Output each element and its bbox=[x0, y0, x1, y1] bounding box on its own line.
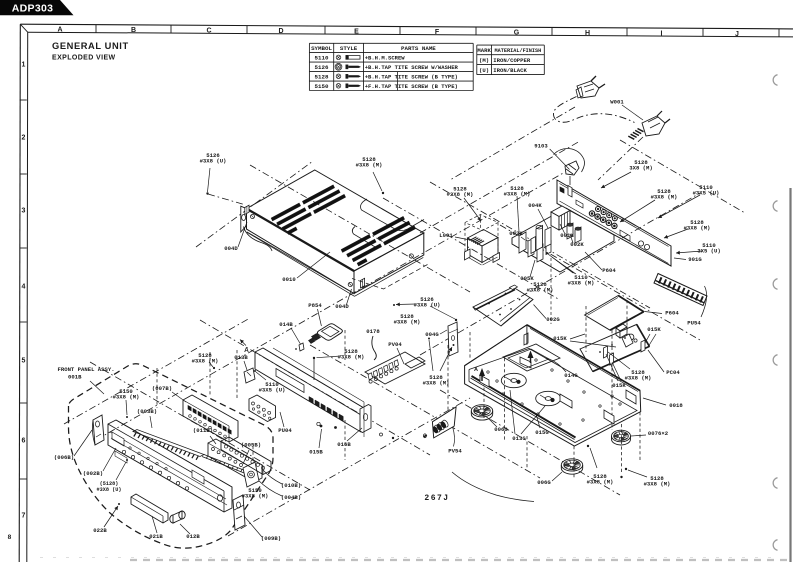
svg-text:#3X8 (M): #3X8 (M) bbox=[242, 493, 269, 500]
dashed guides above L001 bbox=[465, 215, 498, 231]
dashed vertical near 002G bbox=[550, 258, 552, 324]
bold arrow on chassis rear bbox=[528, 351, 534, 359]
svg-text:MATERIAL/FINISH: MATERIAL/FINISH bbox=[495, 48, 542, 54]
svg-text:#3X8 (M): #3X8 (M) bbox=[423, 380, 450, 387]
cable curve from cover flange bbox=[244, 227, 273, 252]
capacitors 002K bbox=[567, 223, 573, 239]
svg-text:+B.H.TAP TITE SCREW (B TYPE): +B.H.TAP TITE SCREW (B TYPE) bbox=[365, 73, 458, 80]
svg-text:012B: 012B bbox=[186, 533, 200, 540]
svg-text:5110: 5110 bbox=[315, 55, 329, 62]
svg-text:#3X8 (M): #3X8 (M) bbox=[113, 394, 140, 401]
svg-text:002G: 002G bbox=[546, 316, 560, 323]
standoffs 015K bbox=[641, 340, 645, 352]
svg-text:013G: 013G bbox=[512, 435, 526, 442]
small part 004B bbox=[243, 462, 259, 487]
svg-text:015G: 015G bbox=[535, 429, 549, 436]
right page edge shadow bbox=[789, 188, 791, 562]
svg-text:013B: 013B bbox=[234, 354, 248, 361]
curve under chassis bbox=[452, 472, 534, 502]
svg-text:F: F bbox=[435, 29, 440, 36]
svg-text:D: D bbox=[278, 28, 283, 35]
svg-text:A: A bbox=[244, 347, 249, 354]
hatched strip board PU54 bbox=[654, 274, 707, 306]
svg-text:#3X8 (M): #3X8 (M) bbox=[568, 280, 595, 287]
svg-text:#3X8 (M): #3X8 (M) bbox=[651, 194, 678, 201]
cover front lower lip bbox=[247, 232, 354, 293]
foot 0076x2 bbox=[612, 430, 631, 442]
relay blocks between boards bbox=[616, 324, 627, 331]
bar 005B bbox=[221, 437, 271, 475]
svg-text:4: 4 bbox=[22, 284, 26, 291]
svg-text:004D: 004D bbox=[335, 303, 349, 310]
capacitor 004K bbox=[536, 226, 543, 251]
svg-text:E: E bbox=[354, 28, 359, 35]
binder punch holes right edge bbox=[773, 75, 777, 86]
foot 006G left bbox=[471, 405, 492, 417]
key board 011B bbox=[208, 439, 262, 482]
svg-text:ADP303: ADP303 bbox=[12, 3, 54, 15]
svg-text:#3X8 (M): #3X8 (M) bbox=[356, 162, 383, 169]
svg-text:(011B): (011B) bbox=[193, 427, 213, 434]
svg-text:0018: 0018 bbox=[669, 402, 683, 409]
svg-text:004D: 004D bbox=[224, 245, 238, 252]
svg-text:3: 3 bbox=[22, 208, 26, 215]
svg-text:PV54: PV54 bbox=[448, 448, 462, 455]
svg-text:IRON/COPPER: IRON/COPPER bbox=[493, 57, 531, 64]
svg-text:J: J bbox=[735, 31, 739, 38]
choke L001 bbox=[468, 230, 499, 247]
svg-text:P604: P604 bbox=[665, 310, 679, 317]
screw dot 5150 top bbox=[126, 416, 128, 418]
IEC appliance plug bbox=[642, 116, 665, 136]
svg-text:P604: P604 bbox=[602, 267, 616, 274]
svg-text:#3X8 (U): #3X8 (U) bbox=[97, 487, 122, 493]
svg-text:0010: 0010 bbox=[282, 276, 296, 283]
svg-text:003K: 003K bbox=[509, 230, 523, 237]
svg-text:(004B): (004B) bbox=[281, 494, 301, 501]
screw on cover front (004D) bbox=[361, 278, 365, 288]
svg-text:PU04: PU04 bbox=[278, 427, 292, 434]
svg-text:PV04: PV04 bbox=[388, 341, 402, 348]
svg-text:#3X8 (M): #3X8 (M) bbox=[192, 358, 219, 365]
foot bottom center bbox=[561, 459, 582, 471]
svg-text:014B: 014B bbox=[279, 321, 293, 328]
cord bushing 9103 bbox=[565, 161, 579, 175]
svg-text:#3X8 (M): #3X8 (M) bbox=[625, 375, 652, 382]
bracket 002G bbox=[473, 287, 533, 326]
svg-text:901G: 901G bbox=[688, 256, 702, 263]
svg-text:(U): (U) bbox=[479, 67, 489, 74]
svg-text:+B.H.TAP TITE SCREW W/WASHER: +B.H.TAP TITE SCREW W/WASHER bbox=[365, 64, 459, 71]
svg-text:001B: 001B bbox=[68, 373, 82, 380]
svg-text:001K: 001K bbox=[560, 232, 574, 239]
svg-text:(M): (M) bbox=[479, 57, 489, 64]
screw symbol table bbox=[309, 42, 473, 44]
top cover vent group lower-right bbox=[341, 234, 371, 252]
svg-text:IRON/BLACK: IRON/BLACK bbox=[493, 67, 527, 74]
svg-text:#3X5 (U): #3X5 (U) bbox=[693, 190, 720, 197]
svg-text:PARTS NAME: PARTS NAME bbox=[401, 45, 436, 52]
svg-text:015B: 015B bbox=[309, 449, 323, 456]
svg-text:#3X8 (M): #3X8 (M) bbox=[338, 354, 365, 361]
svg-text:9103: 9103 bbox=[534, 143, 548, 150]
svg-text:B: B bbox=[131, 27, 136, 34]
top cover vent group upper-left bbox=[271, 203, 301, 221]
svg-text:PU54: PU54 bbox=[687, 320, 701, 327]
svg-text:267J: 267J bbox=[424, 494, 449, 503]
plate 021B bbox=[131, 494, 168, 523]
svg-text:5: 5 bbox=[22, 358, 26, 365]
bottom page cut-off smudge bbox=[130, 559, 790, 561]
board PU04 bbox=[249, 395, 276, 422]
svg-text:#3X8 (U): #3X8 (U) bbox=[200, 158, 227, 165]
frame outer border bbox=[20, 24, 793, 29]
svg-text:L001: L001 bbox=[439, 232, 453, 239]
plate near PV54 bbox=[432, 407, 456, 438]
svg-text:EXPLODED VIEW: EXPLODED VIEW bbox=[52, 55, 116, 62]
screw dot far-left bbox=[455, 319, 457, 321]
svg-text:1: 1 bbox=[22, 62, 26, 69]
svg-text:(005B): (005B) bbox=[241, 442, 261, 449]
rail screws bbox=[320, 425, 323, 428]
svg-text:I: I bbox=[661, 30, 663, 37]
components 003K 005K area bbox=[519, 232, 526, 253]
power cord loop (dash-dot route) bbox=[553, 97, 634, 123]
screw dot under chassis right bbox=[620, 476, 622, 478]
svg-text:+F.H.TAP TITE SCREW (B TYPE): +F.H.TAP TITE SCREW (B TYPE) bbox=[365, 83, 458, 90]
screw 014B bbox=[299, 343, 304, 351]
svg-text:#3X8 (M): #3X8 (M) bbox=[684, 225, 711, 232]
svg-text:#3X8 (M): #3X8 (M) bbox=[447, 191, 474, 198]
svg-text:8: 8 bbox=[8, 534, 12, 541]
svg-text:P854: P854 bbox=[308, 302, 322, 309]
svg-text:FRONT PANEL ASSY.: FRONT PANEL ASSY. bbox=[58, 366, 115, 373]
svg-text:(009B): (009B) bbox=[261, 535, 281, 542]
bracket 009B bbox=[233, 495, 245, 530]
frame inner border bbox=[28, 32, 793, 37]
svg-text:#3X8 (M): #3X8 (M) bbox=[394, 319, 421, 326]
svg-text:G: G bbox=[514, 29, 520, 36]
svg-text:004K: 004K bbox=[528, 202, 542, 209]
svg-text:004G: 004G bbox=[425, 331, 439, 338]
knob 012B bbox=[170, 515, 176, 523]
board P854 bbox=[317, 324, 342, 341]
rear panel 901G bbox=[557, 180, 671, 266]
screw head right wall bbox=[409, 254, 413, 258]
svg-text:5150: 5150 bbox=[315, 83, 329, 90]
svg-text:#3X8 (M): #3X8 (M) bbox=[527, 287, 554, 294]
svg-text:MARK: MARK bbox=[477, 47, 491, 54]
svg-text:014G: 014G bbox=[564, 372, 578, 379]
svg-text:#3X8 (U): #3X8 (U) bbox=[414, 302, 441, 309]
front panel assembly dashed boundary bbox=[69, 364, 274, 548]
svg-text:A: A bbox=[57, 27, 62, 34]
svg-text:#3X8 (M): #3X8 (M) bbox=[644, 481, 671, 488]
svg-text:0178: 0178 bbox=[366, 328, 380, 335]
svg-text:PC04: PC04 bbox=[666, 369, 680, 376]
svg-text:+B.H.M.SCREW: +B.H.M.SCREW bbox=[365, 55, 406, 62]
svg-text:GENERAL UNIT: GENERAL UNIT bbox=[52, 41, 129, 51]
PCB board (lifted) P604 bbox=[585, 296, 644, 331]
svg-text:016B: 016B bbox=[337, 441, 351, 448]
svg-text:5128: 5128 bbox=[315, 73, 329, 80]
top cover inset crease bbox=[361, 199, 424, 231]
display board 007B bbox=[183, 395, 238, 442]
svg-text:022B: 022B bbox=[93, 527, 107, 534]
front chassis rail 016B bbox=[255, 348, 369, 432]
svg-text:(002B): (002B) bbox=[83, 470, 103, 477]
cord curve to panel bbox=[554, 149, 585, 172]
mark material table bbox=[477, 44, 545, 46]
svg-text:021B: 021B bbox=[149, 533, 163, 540]
board PV04 bbox=[365, 352, 425, 384]
svg-text:7: 7 bbox=[22, 513, 26, 520]
vertical dashed guide lines bbox=[585, 306, 587, 352]
cord route to panel bbox=[598, 137, 643, 180]
svg-text:#3X8 (M): #3X8 (M) bbox=[587, 479, 614, 486]
assembly center lines (dash-dot) bbox=[196, 161, 313, 247]
svg-text:0076×2: 0076×2 bbox=[648, 430, 669, 437]
svg-text:W001: W001 bbox=[610, 99, 624, 106]
svg-text:2: 2 bbox=[22, 135, 26, 142]
chassis 0018 outline bbox=[465, 325, 641, 446]
black page top edge and ADP303 tab bbox=[0, 0, 74, 15]
svg-text:(006B): (006B) bbox=[54, 454, 74, 461]
screw head left wall bbox=[251, 215, 255, 219]
power supply board P604 outline bbox=[512, 208, 614, 272]
transformer 001K bbox=[551, 206, 570, 217]
bracket 004G bbox=[448, 322, 458, 356]
svg-text:C: C bbox=[206, 28, 211, 35]
AC wall plug bbox=[577, 81, 599, 98]
chassis floor details bbox=[501, 373, 526, 387]
svg-text:(007B): (007B) bbox=[152, 385, 172, 392]
svg-text:6: 6 bbox=[22, 438, 26, 445]
svg-text:#3X5 (U): #3X5 (U) bbox=[259, 387, 286, 394]
svg-text:SYMBOL: SYMBOL bbox=[311, 45, 332, 52]
svg-text:006G: 006G bbox=[494, 426, 508, 433]
top cover 0010 body bbox=[247, 170, 424, 271]
screw on cover left flange (004D) bbox=[245, 205, 249, 214]
vibrator plug PV54 bbox=[431, 425, 439, 434]
display lens 003B strip bbox=[133, 430, 204, 457]
dashed ghost corner below cover bbox=[352, 265, 428, 290]
svg-text:005K: 005K bbox=[520, 275, 534, 282]
svg-text:3X8 (M): 3X8 (M) bbox=[629, 165, 653, 172]
svg-text:STYLE: STYLE bbox=[340, 45, 358, 52]
svg-text:(003B): (003B) bbox=[137, 408, 157, 415]
bracket 006B bbox=[93, 415, 104, 445]
svg-text:A: A bbox=[474, 367, 478, 373]
svg-text:(010B): (010B) bbox=[281, 482, 301, 489]
board PC04 bbox=[580, 324, 649, 371]
svg-text:015K: 015K bbox=[647, 326, 661, 333]
svg-text:H: H bbox=[585, 30, 590, 37]
front panel 002B bbox=[108, 420, 232, 512]
svg-text:5126: 5126 bbox=[315, 64, 329, 71]
bracket 013B bbox=[244, 368, 255, 383]
svg-text:006G: 006G bbox=[537, 479, 551, 486]
